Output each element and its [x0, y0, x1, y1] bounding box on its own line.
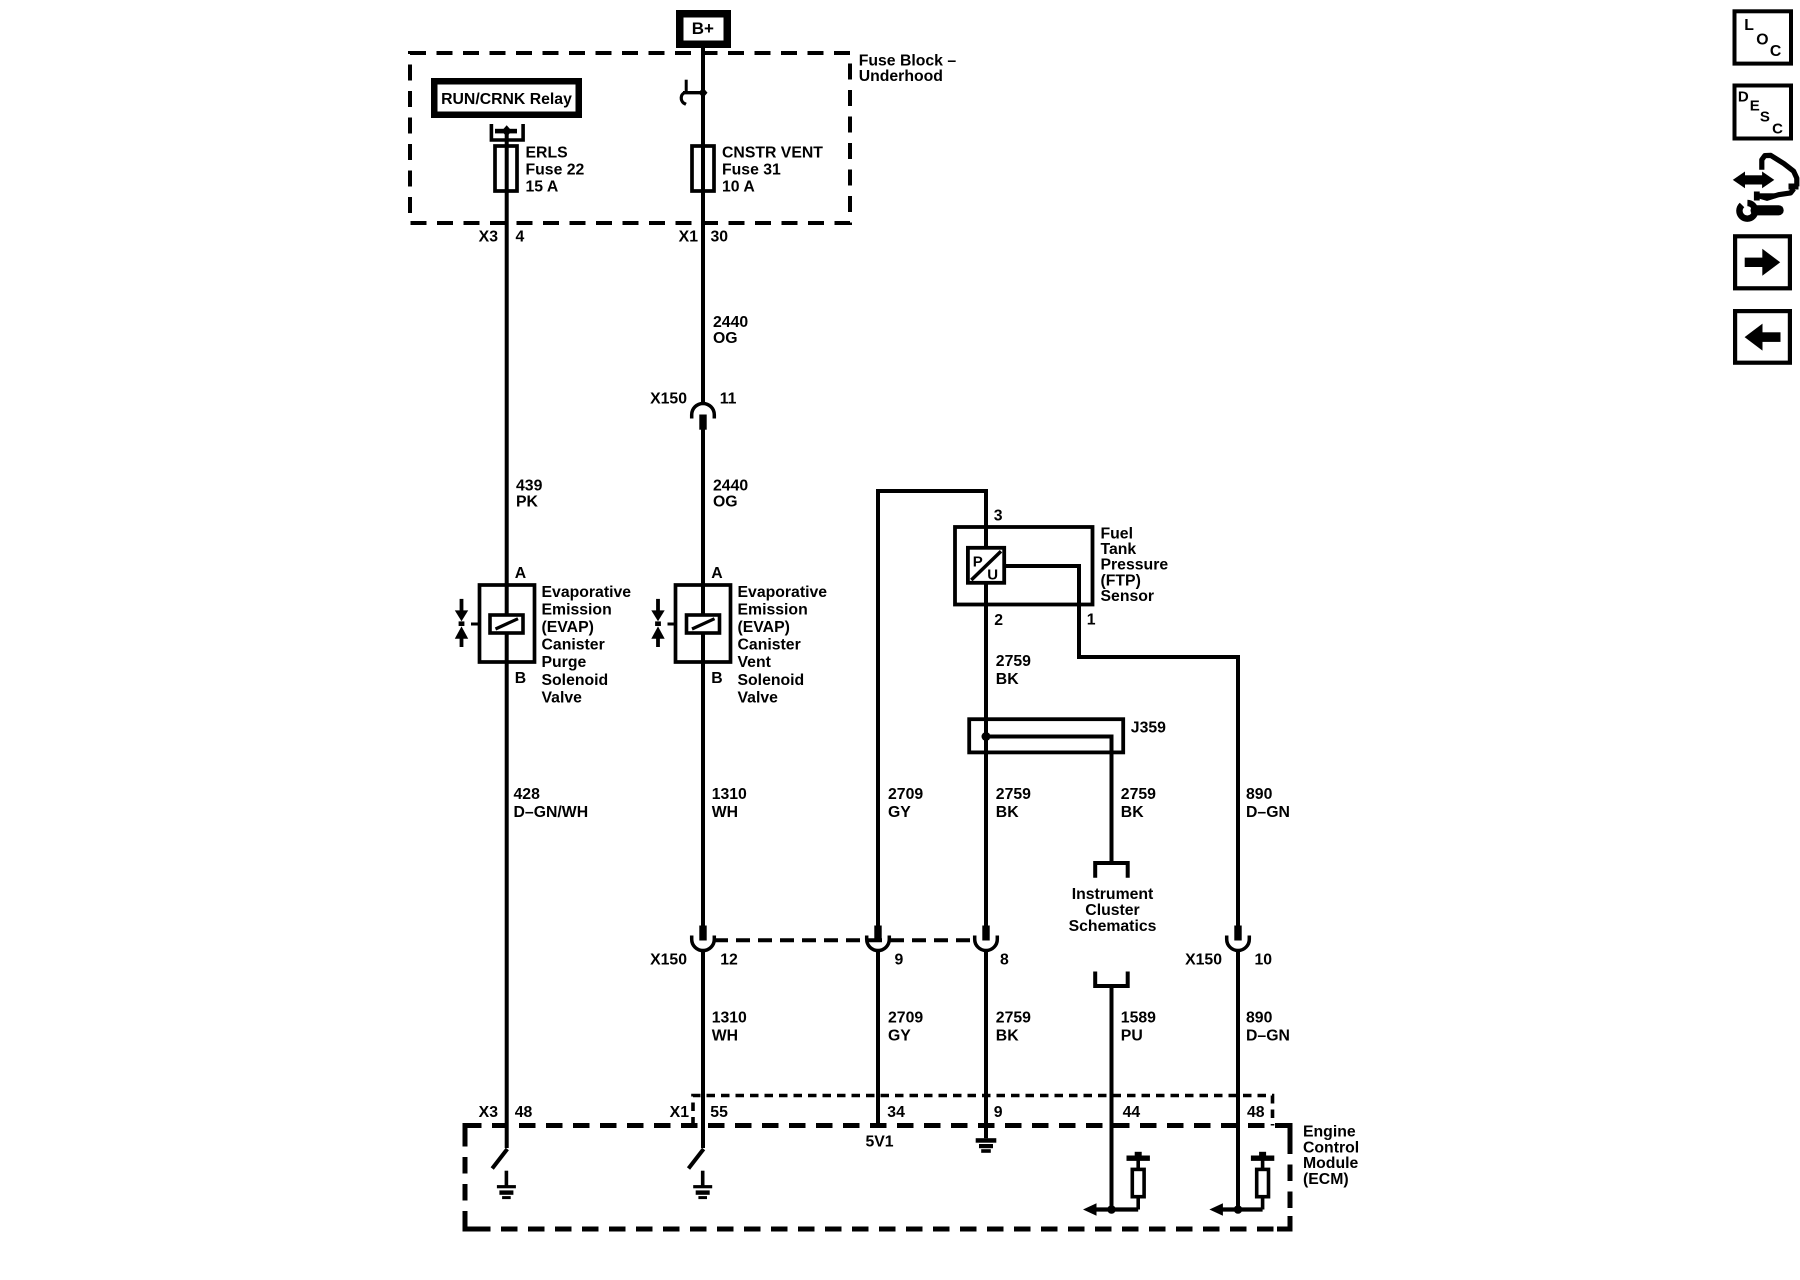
FTP sensor box outline	[955, 527, 1093, 605]
svg-text:10: 10	[1255, 951, 1273, 968]
svg-text:X150: X150	[650, 391, 687, 408]
svg-text:Canister: Canister	[738, 637, 801, 654]
connector male terminal pin	[874, 926, 881, 941]
svg-text:15 A: 15 A	[526, 179, 559, 196]
svg-text:Vent: Vent	[738, 654, 772, 671]
svg-text:Instrument: Instrument	[1072, 886, 1154, 903]
instrument cluster bottom bracket	[1095, 972, 1128, 987]
wire: J359 branch to instrument cluster 2759 BK	[986, 735, 1114, 739]
junction dot	[1107, 1205, 1116, 1214]
svg-text:X3: X3	[479, 1104, 499, 1121]
svg-text:B+: B+	[692, 19, 714, 38]
svg-text:(EVAP): (EVAP)	[542, 619, 594, 636]
svg-text:Schematics: Schematics	[1069, 918, 1157, 935]
wire segment below purge solenoid coil to ECM X3-48	[505, 633, 509, 1148]
svg-text:Pressure: Pressure	[1101, 557, 1169, 574]
svg-text:X150: X150	[1185, 951, 1222, 968]
svg-text:30: 30	[711, 229, 729, 246]
wire: B+ feed down through CNSTR VENT fuse 2440 OG	[701, 46, 705, 403]
svg-text:2759: 2759	[996, 1010, 1031, 1027]
FTP pressure transducer P/U symbol	[968, 548, 1004, 583]
ECM dashed box	[465, 1126, 1290, 1230]
fuse 31 CNSTR VENT body	[692, 146, 714, 191]
connector X150 pin 11	[692, 403, 715, 418]
svg-text:Emission: Emission	[738, 601, 808, 618]
svg-text:U: U	[987, 567, 998, 584]
svg-text:X150: X150	[650, 951, 687, 968]
power terminal B+ box	[680, 14, 728, 45]
svg-text:A: A	[711, 565, 722, 582]
svg-text:BK: BK	[996, 1028, 1019, 1045]
svg-text:439: 439	[516, 478, 543, 495]
svg-text:Purge: Purge	[542, 654, 587, 671]
svg-text:3: 3	[994, 508, 1003, 525]
svg-text:1310: 1310	[712, 786, 747, 803]
svg-text:C: C	[1772, 120, 1783, 137]
connector female terminal cup	[1227, 936, 1250, 951]
svg-text:9: 9	[895, 951, 904, 968]
svg-text:Module: Module	[1303, 1155, 1358, 1172]
svg-text:2440: 2440	[713, 314, 748, 331]
ground symbol left	[505, 1171, 509, 1187]
svg-text:48: 48	[1247, 1104, 1265, 1121]
svg-text:2759: 2759	[996, 786, 1031, 803]
svg-text:44: 44	[1123, 1104, 1141, 1121]
svg-text:PK: PK	[516, 494, 539, 511]
icon: LOC button	[1735, 11, 1792, 63]
svg-text:BK: BK	[1121, 804, 1144, 821]
svg-text:2759: 2759	[1121, 786, 1156, 803]
svg-text:L: L	[1744, 17, 1754, 34]
svg-text:Underhood: Underhood	[859, 68, 943, 85]
purge valve symbol	[460, 599, 464, 612]
svg-text:Fuse 31: Fuse 31	[722, 162, 781, 179]
svg-text:2440: 2440	[713, 478, 748, 495]
svg-text:(FTP): (FTP)	[1101, 572, 1141, 589]
wire: 5V reference top bridge	[876, 489, 988, 493]
svg-text:34: 34	[887, 1104, 905, 1121]
wire: 890 D-GN down to X150-10	[1236, 655, 1240, 926]
fuse block underhood dashed box	[410, 53, 850, 223]
svg-text:Fuse Block –: Fuse Block –	[859, 52, 957, 69]
svg-text:Engine: Engine	[1303, 1124, 1356, 1141]
svg-text:2709: 2709	[888, 786, 923, 803]
vent solenoid coil	[687, 615, 720, 633]
svg-text:Valve: Valve	[542, 689, 583, 706]
svg-text:BK: BK	[996, 671, 1019, 688]
internal voltage rail	[1261, 1156, 1265, 1169]
svg-text:D–GN/WH: D–GN/WH	[514, 804, 589, 821]
internal voltage rail	[1136, 1156, 1140, 1169]
ground bars	[497, 1185, 516, 1188]
battery positive terminal symbol	[685, 80, 688, 93]
wire: ERLS fuse output 439 PK / 428 D-GN/WH (X3 circuit)	[505, 131, 509, 616]
ground bars	[693, 1185, 712, 1188]
wire: 2709 GY vertical to X150-9	[876, 489, 880, 926]
splice pack J359 box	[969, 719, 1123, 752]
wire: 2759 BK FTP pin 2 through J359 to X150-8	[984, 583, 988, 926]
svg-text:Tank: Tank	[1101, 541, 1137, 558]
wire: 890 D-GN X150-10 to ECM X1-48	[1236, 949, 1240, 1210]
junction dot	[1234, 1205, 1243, 1214]
EVAP purge solenoid box	[480, 585, 535, 662]
wire: FTP pin 1 internal lead	[1004, 564, 1079, 568]
svg-text:A: A	[515, 565, 526, 582]
svg-text:Solenoid: Solenoid	[542, 672, 609, 689]
svg-text:P: P	[973, 554, 983, 571]
relay output terminal cup	[491, 124, 523, 140]
ground symbol mid	[701, 1171, 705, 1187]
switch to ground at ECM X3-48	[492, 1149, 507, 1169]
wire: 1310 WH vent solenoid to X150-12	[701, 633, 705, 926]
wire to internal comparator with arrow	[1218, 1207, 1262, 1211]
fuse 22 ERLS body	[495, 146, 517, 191]
svg-text:WH: WH	[712, 804, 738, 821]
svg-text:12: 12	[720, 951, 738, 968]
svg-text:X3: X3	[479, 229, 499, 246]
pull-up resistor	[1261, 1197, 1265, 1210]
wire: 2759 BK X150-8 to ECM X1-9	[984, 949, 988, 1138]
connector female terminal cup	[975, 936, 998, 951]
svg-text:Fuse 22: Fuse 22	[526, 162, 585, 179]
svg-text:Evaporative: Evaporative	[738, 584, 828, 601]
svg-text:X1: X1	[679, 229, 699, 246]
svg-text:E: E	[1750, 98, 1760, 115]
connector female terminal cup	[867, 936, 890, 951]
relay RUN/CRNK Relay box	[434, 81, 579, 115]
wire: 890 D-GN horizontal run	[1077, 655, 1238, 659]
wire: 2709 GY X150-9 to ECM X1-34	[876, 949, 880, 1126]
X1 connector dotted outline	[693, 1096, 1273, 1126]
icon: DESC button	[1735, 86, 1792, 139]
svg-text:4: 4	[516, 229, 525, 246]
wire to internal comparator with arrow	[1092, 1207, 1138, 1211]
svg-text:D–GN: D–GN	[1246, 1028, 1290, 1045]
svg-text:55: 55	[710, 1104, 728, 1121]
svg-text:2: 2	[994, 612, 1003, 629]
svg-text:(ECM): (ECM)	[1303, 1171, 1349, 1188]
purge solenoid coil	[490, 615, 523, 633]
svg-text:Evaporative: Evaporative	[542, 584, 632, 601]
icon: forward arrow button	[1735, 236, 1790, 288]
svg-text:(EVAP): (EVAP)	[738, 619, 790, 636]
svg-text:48: 48	[515, 1104, 533, 1121]
svg-text:428: 428	[514, 786, 541, 803]
wire: 2440 OG below X150-11 to vent solenoid	[701, 430, 705, 616]
svg-text:ERLS: ERLS	[526, 145, 568, 162]
svg-text:1310: 1310	[712, 1010, 747, 1027]
connector male terminal pin	[1234, 926, 1241, 941]
svg-text:5V1: 5V1	[865, 1134, 893, 1151]
X150 in-line connector dashed line	[714, 938, 975, 942]
svg-text:1589: 1589	[1121, 1010, 1156, 1027]
wire: 1310 WH X150-12 to ECM X1-55	[701, 949, 705, 1148]
svg-text:Cluster: Cluster	[1085, 902, 1139, 919]
svg-text:1: 1	[1087, 612, 1096, 629]
connector male terminal pin	[982, 926, 989, 941]
svg-text:Sensor: Sensor	[1101, 588, 1155, 605]
svg-text:10 A: 10 A	[722, 179, 755, 196]
svg-text:11: 11	[720, 391, 737, 408]
svg-text:GY: GY	[888, 804, 911, 821]
svg-text:Canister: Canister	[542, 637, 605, 654]
svg-text:WH: WH	[712, 1028, 738, 1045]
svg-text:D–GN: D–GN	[1246, 804, 1290, 821]
svg-text:BK: BK	[996, 804, 1019, 821]
vent valve symbol	[656, 599, 660, 612]
instrument cluster top bracket	[1095, 863, 1128, 878]
splice junction dot in J359	[982, 732, 991, 741]
connector female terminal cup	[692, 936, 715, 951]
wire: 1589 PU instrument cluster to ECM X1-44	[1110, 988, 1114, 1210]
svg-text:D: D	[1738, 89, 1749, 106]
svg-text:2759: 2759	[996, 653, 1031, 670]
svg-text:2709: 2709	[888, 1010, 923, 1027]
icon: back arrow button	[1735, 311, 1790, 363]
pull-up resistor	[1136, 1197, 1140, 1210]
connector male terminal pin	[699, 926, 706, 941]
svg-text:RUN/CRNK Relay: RUN/CRNK Relay	[441, 91, 572, 108]
svg-text:C: C	[1770, 43, 1781, 60]
svg-text:OG: OG	[713, 494, 738, 511]
icon: diagnostic arrows and wrench	[1733, 155, 1799, 218]
svg-text:PU: PU	[1121, 1028, 1143, 1045]
svg-text:890: 890	[1246, 1010, 1273, 1027]
svg-text:B: B	[711, 670, 722, 687]
EVAP vent solenoid box	[676, 585, 731, 662]
svg-text:X1: X1	[670, 1104, 690, 1121]
svg-text:Emission: Emission	[542, 601, 612, 618]
svg-text:9: 9	[994, 1104, 1003, 1121]
svg-text:Fuel: Fuel	[1101, 526, 1133, 543]
ground symbol at ECM X1-9	[976, 1138, 997, 1143]
svg-text:Solenoid: Solenoid	[738, 672, 805, 689]
wire: FTP pin 3 drop	[984, 491, 988, 548]
svg-text:8: 8	[1000, 951, 1009, 968]
svg-text:S: S	[1760, 108, 1770, 125]
svg-text:J359: J359	[1131, 720, 1166, 737]
svg-text:B: B	[515, 670, 526, 687]
svg-text:O: O	[1756, 31, 1768, 48]
svg-text:CNSTR VENT: CNSTR VENT	[722, 145, 823, 162]
svg-text:OG: OG	[713, 330, 738, 347]
svg-text:Valve: Valve	[738, 689, 779, 706]
svg-text:890: 890	[1246, 786, 1273, 803]
svg-text:Control: Control	[1303, 1139, 1359, 1156]
switch to ground at ECM X1-55	[689, 1149, 704, 1169]
svg-text:GY: GY	[888, 1028, 911, 1045]
